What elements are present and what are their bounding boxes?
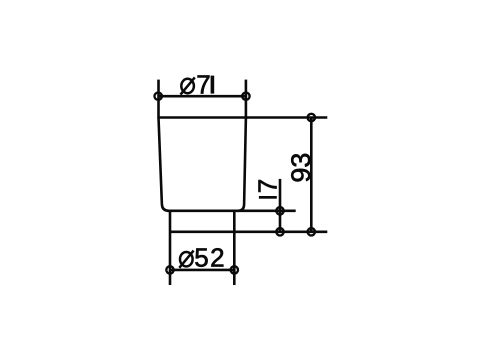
wire dimension line dia71 [159, 95, 246, 98]
cup body outline left and right sides [159, 118, 246, 211]
wire dimension line 93 vertical [310, 118, 313, 232]
node marker left dia52 [166, 266, 173, 273]
node marker 93 top [308, 114, 315, 121]
wire holder bottom edge and 93/17 bottom reference [170, 231, 327, 234]
label dia52 diameter symbol [179, 251, 193, 268]
node marker 93 bottom [308, 228, 315, 235]
node marker 17 top [276, 207, 283, 214]
svg-text:7: 7 [253, 179, 283, 193]
wire holder right side / dia52 right extension [233, 211, 236, 285]
label 71 digit 1 drawn as plain bar [211, 76, 215, 94]
wire cup bottom edge and 17 top reference [168, 210, 296, 213]
label dia71 diameter symbol [181, 77, 195, 94]
node marker right dia71 [242, 93, 249, 100]
node marker 17 bottom [276, 228, 283, 235]
node marker right dia52 [231, 266, 238, 273]
wire extension line right of dia71 [245, 80, 248, 118]
wire holder left side / dia52 left extension [169, 211, 172, 285]
wire dimension line dia52 [170, 269, 234, 272]
wire dimension line 17 vertical [279, 179, 282, 232]
svg-text:7: 7 [196, 70, 210, 100]
label 17 digit 1 drawn as plain bar rotated [259, 196, 277, 199]
wire extension line left of dia71 [157, 80, 160, 118]
svg-text:52: 52 [194, 242, 226, 272]
wire cup top edge and 93 top reference [159, 116, 328, 119]
node marker left dia71 [155, 93, 162, 100]
svg-text:93: 93 [286, 153, 316, 183]
